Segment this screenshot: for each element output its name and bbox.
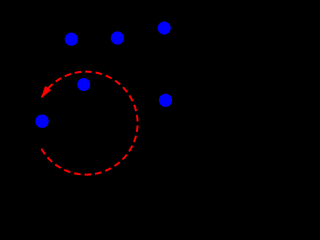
ion dot B5	[159, 94, 172, 107]
orbit path O1 (red dashed circular arc, counterclockwise)	[41, 72, 138, 175]
ion dot B1	[65, 33, 78, 46]
ion dot B3	[158, 22, 171, 35]
ion dot B2	[111, 31, 124, 44]
arrowhead A1 (direction of motion, pointing down-left)	[41, 86, 51, 99]
ion dot B4	[77, 78, 90, 91]
ion dot B6	[35, 115, 48, 128]
